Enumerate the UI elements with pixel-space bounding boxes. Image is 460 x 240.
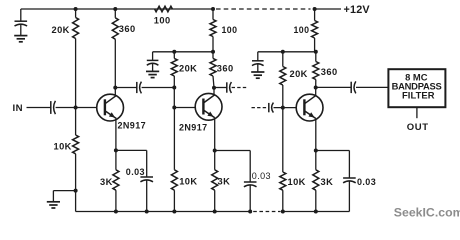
- wire emitter node to C6: [215, 150, 251, 152]
- node Q1 emitter junction: [114, 148, 118, 152]
- svg-text:100: 100: [222, 25, 238, 35]
- node bottom rail junction R15: [314, 210, 318, 214]
- label R6 100: [222, 25, 238, 35]
- resistor R9 10K stage2: [171, 108, 177, 212]
- capacitor C10 0.03 stage3: [343, 151, 356, 212]
- wire ground rail solid right: [283, 211, 350, 213]
- node stage3 supply junction: [314, 50, 318, 54]
- label C6 0.03: [252, 171, 271, 181]
- wire stage3 decoupled supply: [258, 51, 316, 53]
- svg-text:OUT: OUT: [407, 122, 429, 133]
- node Q2 collector junction: [212, 86, 216, 90]
- capacitor C3 0.03 stage1: [140, 150, 153, 211]
- label U1 FILTER: [402, 90, 435, 101]
- capacitor C9 stage3 supply bypass: [252, 52, 264, 72]
- node R6 top junction: [211, 7, 215, 11]
- svg-text:3K: 3K: [100, 177, 113, 187]
- wire dashed continuation after C7: [232, 87, 248, 89]
- transistor Q3: [296, 94, 323, 121]
- capacitor C1 supply bypass: [15, 9, 28, 35]
- svg-text:2N917: 2N917: [179, 122, 208, 132]
- label R7 20K: [179, 64, 197, 74]
- label Q1 2N917: [118, 121, 147, 131]
- capacitor C5 stage2 supply bypass: [147, 52, 159, 71]
- node Q1 collector junction: [113, 86, 117, 90]
- label R2 360: [119, 24, 136, 34]
- node bottom rail junction R5: [114, 210, 118, 214]
- resistor R15 3K stage3 emitter: [313, 151, 319, 212]
- ground G1: [14, 36, 27, 42]
- wire Q3 emitter lead: [315, 119, 317, 150]
- wire emitter node to C10: [316, 150, 350, 152]
- resistor R6 100 stage2 decoupling: [210, 9, 216, 52]
- node Q2 base junction: [172, 106, 176, 110]
- label U1 8MC: [405, 71, 428, 82]
- wire IN lead: [27, 107, 51, 109]
- wire top rail solid right to +12V: [315, 8, 341, 10]
- node OUT label: [407, 122, 429, 133]
- node bottom rail junction R10: [213, 210, 217, 214]
- node stage2 coupling junction: [172, 86, 176, 90]
- wire dashed into stage3: [252, 107, 267, 109]
- wire ground tap stage1: [53, 189, 77, 202]
- svg-text:3K: 3K: [218, 177, 231, 187]
- wire OUT stub: [416, 107, 418, 118]
- svg-text:3K: 3K: [321, 177, 334, 187]
- label Q2 2N917: [179, 122, 208, 132]
- node R11 top junction: [313, 7, 317, 11]
- node Q3 base junction: [281, 106, 285, 110]
- capacitor C4 interstage coupling: [137, 82, 142, 94]
- label U1 BANDPASS: [392, 80, 442, 91]
- label watermark SeekIC.com: [394, 206, 460, 220]
- svg-text:360: 360: [217, 64, 234, 74]
- svg-text:0.03: 0.03: [126, 167, 145, 177]
- svg-text:20K: 20K: [179, 64, 197, 74]
- svg-text:20K: 20K: [52, 25, 70, 35]
- svg-text:0.03: 0.03: [252, 171, 271, 181]
- node bottom rail junction C3: [145, 210, 149, 214]
- capacitor C8 coupling into stage3: [269, 103, 274, 113]
- wire top rail dashed middle: [216, 8, 311, 10]
- svg-text:100: 100: [294, 25, 310, 35]
- capacitor C11 output coupling: [351, 81, 356, 93]
- wire stage2 decoupled supply: [153, 51, 213, 53]
- resistor R14 10K stage3: [280, 108, 286, 212]
- ground G4: [251, 72, 264, 78]
- transistor Q1 2N917: [97, 94, 124, 121]
- label R1 20K: [52, 25, 70, 35]
- resistor R7 20K stage2 bias: [171, 52, 177, 108]
- label R10 3K: [218, 177, 231, 187]
- resistor R8 360 stage2 collector: [210, 52, 216, 88]
- node Q2 emitter junction: [213, 149, 217, 153]
- svg-text:20K: 20K: [290, 69, 308, 79]
- capacitor C7 coupling out of stage2: [227, 82, 232, 93]
- wire C4 to stage2 base column: [142, 87, 175, 89]
- node Q3 collector junction: [314, 86, 318, 90]
- svg-text:IN: IN: [13, 103, 23, 114]
- label C3 0.03: [126, 167, 145, 177]
- capacitor C6 0.03 stage2: [244, 151, 257, 212]
- svg-text:+12V: +12V: [344, 4, 371, 16]
- wire ground rail solid left: [76, 211, 251, 213]
- node Q3 emitter junction: [314, 149, 318, 153]
- wire Q1 collector lead: [114, 88, 116, 96]
- node stage2 20K tap: [172, 50, 176, 54]
- label R5 3K: [100, 177, 113, 187]
- svg-text:100: 100: [154, 15, 171, 25]
- svg-text:0.03: 0.03: [357, 177, 376, 187]
- resistor R4 10K stage1: [73, 108, 79, 212]
- label R4 10K: [54, 142, 72, 152]
- ground G2: [47, 202, 60, 208]
- wire ground rail dashed: [253, 211, 280, 213]
- wire Q1 emitter lead: [115, 119, 117, 150]
- wire Q2 emitter lead: [214, 119, 216, 151]
- wire Q3 collector to C11: [316, 86, 352, 88]
- wire Q3 collector lead: [315, 88, 317, 96]
- resistor R1 20K stage1 bias: [73, 9, 79, 108]
- wire base node to Q2: [174, 107, 195, 109]
- label R11 100: [294, 25, 310, 35]
- label R8 360: [217, 64, 234, 74]
- resistor R5 3K stage1 emitter: [113, 150, 119, 211]
- svg-text:2N917: 2N917: [118, 121, 147, 131]
- wire Q2 collector lead: [213, 88, 215, 96]
- resistor R12 20K stage3 bias: [280, 52, 286, 108]
- wire C8 to Q3 base: [274, 107, 297, 109]
- resistor R3 100 series supply: [155, 6, 173, 12]
- svg-text:360: 360: [321, 67, 338, 77]
- label R13 360: [321, 67, 338, 77]
- node stage3 20K tap: [281, 50, 285, 54]
- node IN label: [13, 103, 23, 114]
- svg-text:360: 360: [119, 24, 136, 34]
- wire Q2 collector to C7: [214, 87, 227, 89]
- node stage2 supply junction: [211, 50, 215, 54]
- label C10 0.03: [357, 177, 376, 187]
- wire emitter node to C3: [116, 149, 147, 151]
- label R14 10K: [288, 177, 306, 187]
- block U1 8MC bandpass filter box: [388, 69, 445, 107]
- resistor R11 100 stage3 decoupling: [312, 9, 318, 52]
- transistor Q2 2N917: [195, 93, 222, 120]
- label R9 10K: [179, 177, 197, 187]
- resistor R10 3K stage2 emitter: [212, 151, 218, 212]
- svg-text:SeekIC.com: SeekIC.com: [394, 206, 460, 220]
- svg-text:10K: 10K: [288, 177, 306, 187]
- resistor R13 360 stage3 collector: [313, 52, 319, 88]
- node base Q1 junction: [74, 106, 78, 110]
- node bottom rail junction R14: [281, 210, 285, 214]
- svg-text:FILTER: FILTER: [402, 90, 435, 101]
- resistor R2 360 stage1 collector: [112, 9, 118, 88]
- wire Q1 collector to C4: [115, 87, 137, 89]
- wire C11 to filter: [356, 86, 389, 88]
- label R3 100: [154, 15, 171, 25]
- node bottom rail junction C6: [248, 210, 252, 214]
- capacitor C2 input coupling: [51, 101, 56, 114]
- ground G3: [146, 71, 159, 77]
- node bottom rail junction R9: [172, 210, 176, 214]
- svg-text:10K: 10K: [54, 142, 72, 152]
- node +12V label: [344, 4, 371, 16]
- node top rail junction R1: [74, 7, 78, 11]
- wire base node to Q1: [76, 107, 97, 109]
- label R12 20K: [290, 69, 308, 79]
- svg-text:10K: 10K: [179, 177, 197, 187]
- wire C2 to base node: [56, 107, 76, 109]
- wire +12V top rail solid left: [21, 8, 213, 10]
- node top rail junction R2: [113, 7, 117, 11]
- label R15 3K: [321, 177, 334, 187]
